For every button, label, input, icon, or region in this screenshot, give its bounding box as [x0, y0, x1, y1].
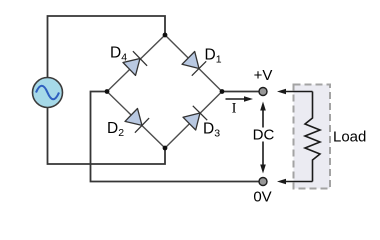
svg-text:+V: +V — [254, 67, 273, 84]
load bottom wire with arrow to 0V — [277, 179, 313, 185]
svg-text:DC: DC — [253, 127, 275, 144]
junction node right — [220, 89, 225, 94]
wire AC top to bridge top node — [48, 16, 166, 78]
svg-text:Load: Load — [333, 129, 366, 146]
wire left node to 0V terminal — [91, 92, 259, 182]
diode D2 — [125, 109, 149, 133]
load top wire with arrow to +V — [277, 89, 313, 95]
DC arrow down — [260, 142, 266, 174]
load dashed box — [294, 85, 331, 189]
bridge diamond arms — [107, 35, 222, 148]
diode D1 — [182, 52, 206, 76]
load resistor — [305, 92, 320, 182]
svg-text:I: I — [232, 101, 237, 117]
0V terminal — [259, 178, 267, 186]
diode D3 — [183, 106, 207, 130]
wire AC bottom to bridge bottom node — [48, 108, 166, 165]
junction node left — [105, 89, 110, 94]
+V terminal — [259, 88, 267, 96]
diode D4 — [123, 51, 147, 75]
DC arrow up — [260, 102, 266, 128]
junction node bottom — [163, 146, 168, 151]
AC source — [33, 78, 63, 108]
wire right node to +V terminal — [222, 91, 259, 93]
svg-text:0V: 0V — [253, 189, 271, 206]
current I arrow — [226, 96, 254, 102]
junction node top — [163, 33, 168, 38]
